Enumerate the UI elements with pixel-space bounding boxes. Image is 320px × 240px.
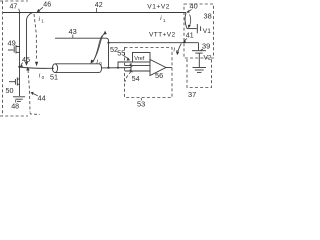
svg-text:0: 0 — [99, 61, 102, 66]
svg-text:56: 56 — [155, 71, 163, 80]
svg-text:V2: V2 — [204, 55, 212, 62]
svg-text:54: 54 — [132, 76, 140, 83]
svg-text:47: 47 — [10, 4, 18, 11]
svg-text:50: 50 — [6, 86, 14, 95]
svg-text:48: 48 — [11, 101, 19, 110]
svg-text:0: 0 — [176, 49, 179, 54]
svg-text:49: 49 — [8, 38, 16, 47]
svg-text:44: 44 — [38, 94, 46, 103]
svg-text:38: 38 — [204, 12, 212, 21]
svg-text:40: 40 — [190, 2, 198, 11]
svg-text:VTT+V2: VTT+V2 — [149, 32, 175, 39]
svg-text:45: 45 — [22, 55, 30, 64]
svg-text:51: 51 — [50, 73, 58, 82]
svg-text:42: 42 — [95, 2, 103, 9]
svg-text:53: 53 — [137, 100, 145, 109]
svg-text:V1: V1 — [203, 28, 211, 35]
svg-text:37: 37 — [188, 90, 196, 99]
svg-text:V1+V2: V1+V2 — [147, 3, 170, 10]
svg-text:46: 46 — [43, 2, 51, 9]
svg-text:39: 39 — [202, 41, 210, 50]
svg-text:Vref: Vref — [134, 56, 144, 62]
